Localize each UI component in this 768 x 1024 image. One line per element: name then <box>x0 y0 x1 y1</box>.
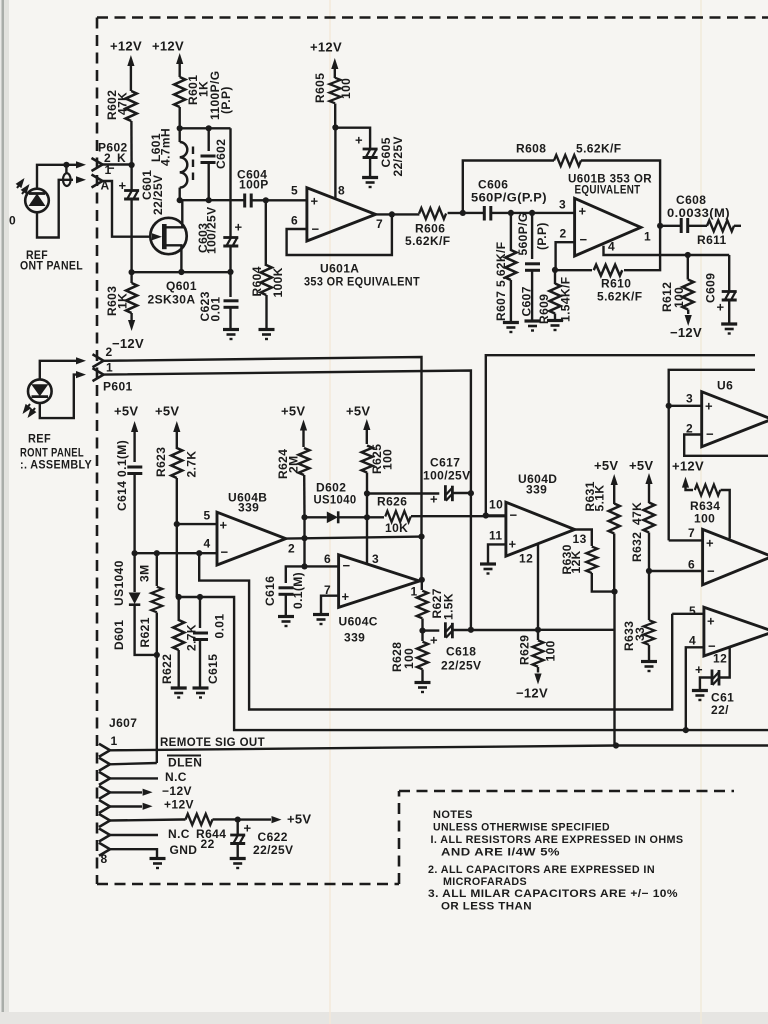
svg-text:+: + <box>509 537 517 552</box>
resistor R630 12K <box>586 547 597 573</box>
svg-text:100P: 100P <box>239 178 269 192</box>
svg-text:I. ALL RESISTORS ARE EXPRES: I. ALL RESISTORS ARE EXPRESSED IN OHMS <box>431 834 684 846</box>
output wire to C608 <box>660 225 680 227</box>
svg-text:4.7mH: 4.7mH <box>159 128 173 166</box>
ground under R633 <box>641 662 657 672</box>
node D602 anode <box>301 514 307 520</box>
vertical net down from pin3 node <box>668 406 670 541</box>
resistor R605 <box>330 78 341 104</box>
svg-text:5.62K/F: 5.62K/F <box>597 290 643 304</box>
output wire U604C <box>420 579 422 582</box>
node SIG OUT / R630 tap <box>613 742 619 748</box>
resistor R624 2M <box>299 448 310 475</box>
capacitor C608 <box>681 218 688 233</box>
capacitor C617 (polarized horizontal) <box>445 485 452 501</box>
node feedback on output <box>389 211 395 217</box>
svg-text:REMOTE SIG OUT: REMOTE SIG OUT <box>160 735 265 749</box>
svg-text:100: 100 <box>402 648 416 669</box>
svg-text:12: 12 <box>519 552 533 566</box>
svg-text:C607: C607 <box>520 286 534 316</box>
svg-text:353 OR EQUIVALENT: 353 OR EQUIVALENT <box>304 275 420 289</box>
svg-text:6: 6 <box>324 552 331 566</box>
node R621 on pin4 wire <box>154 550 160 556</box>
svg-text:+5V: +5V <box>346 404 370 419</box>
svg-text:5: 5 <box>689 604 696 618</box>
wire photodiode bottom loop to pin 1 <box>37 180 73 238</box>
resistor R623 <box>171 448 182 478</box>
svg-text:R626: R626 <box>377 495 407 509</box>
svg-text:2. ALL CAPACITORS ARE EXPRE: 2. ALL CAPACITORS ARE EXPRESSED IN <box>428 864 655 876</box>
pin 5 wire <box>266 199 307 201</box>
svg-text:4: 4 <box>204 537 211 551</box>
svg-text:2.7K: 2.7K <box>185 451 199 478</box>
node R629 top <box>535 627 541 633</box>
pin 4 wire <box>604 246 730 255</box>
wire P601 pin1 long run <box>104 371 471 494</box>
wire GND pin8 <box>110 849 157 857</box>
svg-text:33: 33 <box>633 627 647 641</box>
pin 2 feedback wire U6A <box>684 435 768 456</box>
capacitor C603 (polarized) <box>229 232 231 238</box>
svg-text:C615: C615 <box>206 654 220 684</box>
node R612 tap <box>685 252 691 258</box>
diode D602 US1040 <box>327 512 338 524</box>
node pin2/R609/R610 <box>552 267 558 273</box>
wire to R630 node corner <box>538 629 615 631</box>
output wire pin 7 <box>376 213 420 215</box>
wire net line4 upper right <box>669 370 755 406</box>
Q601 drain lead <box>166 200 182 227</box>
wire C618 row <box>423 629 440 631</box>
svg-text:R623: R623 <box>154 447 168 477</box>
svg-text:2: 2 <box>560 227 567 241</box>
node R623 pin5 <box>174 521 180 527</box>
svg-text:560P/G(P.P): 560P/G(P.P) <box>471 191 547 205</box>
photodiode P601 assembly circle <box>28 379 52 403</box>
netB wire to C615 and right <box>179 597 768 730</box>
wire C617 row <box>367 492 439 494</box>
svg-text:C622: C622 <box>258 830 288 844</box>
svg-text:US1040: US1040 <box>112 560 126 606</box>
Q601 source lead <box>166 245 181 272</box>
resistor R626 10K <box>385 511 411 522</box>
node C614 on pin4 wire <box>132 550 138 556</box>
svg-text:47K: 47K <box>630 502 644 525</box>
resistor R644 22 <box>186 814 213 825</box>
svg-text:C602: C602 <box>214 139 228 169</box>
svg-text:12: 12 <box>713 652 727 666</box>
ground under R628 <box>415 683 431 693</box>
svg-text:+: + <box>220 518 228 533</box>
svg-text:+5V: +5V <box>629 458 653 473</box>
svg-text:100/25V: 100/25V <box>205 206 219 254</box>
capacitor C606 <box>484 206 491 221</box>
R625 vertical to D602 row and pin 3 stub <box>366 494 368 565</box>
svg-text:US1040: US1040 <box>314 493 357 507</box>
node R632/R633 pin6 <box>646 568 652 574</box>
svg-text:22/: 22/ <box>711 703 729 717</box>
wire arrow into pin 2 <box>66 164 76 166</box>
svg-text:100: 100 <box>672 287 686 308</box>
svg-text:+12V: +12V <box>152 39 184 54</box>
svg-text:R608: R608 <box>516 142 546 156</box>
svg-text:22/25V: 22/25V <box>441 659 481 673</box>
svg-text:R605: R605 <box>313 73 327 103</box>
svg-text:339: 339 <box>238 501 259 515</box>
resistor R625 100 <box>362 446 373 473</box>
drain row wire to C604 <box>180 199 244 201</box>
+12V arrow R601 <box>176 53 183 64</box>
cable loop oval <box>63 173 71 186</box>
+5V arrow C614 <box>131 421 138 432</box>
pin 6 wire <box>305 565 339 567</box>
pin 6 wire <box>649 570 703 572</box>
+5V arrow R623 <box>173 421 180 432</box>
resistor R610 <box>594 265 623 276</box>
svg-text:2SK30A: 2SK30A <box>148 293 196 307</box>
node A cable junction <box>63 162 69 168</box>
op-amp U6xxC partial triangle <box>704 607 768 656</box>
node R605/C605 <box>332 124 338 130</box>
svg-text:+: + <box>706 536 714 551</box>
photodiode D600 light arrows <box>16 176 33 194</box>
svg-text:−12V: −12V <box>670 325 702 340</box>
svg-text:6: 6 <box>688 558 695 572</box>
node C607 tap <box>529 210 535 216</box>
svg-text:0.01: 0.01 <box>209 297 223 322</box>
resistor R604 <box>265 200 267 266</box>
output wire to R630 <box>575 530 592 547</box>
ground under R609 <box>547 321 563 331</box>
wire net line3 to pin10 <box>486 355 755 515</box>
resistor R608 <box>554 155 581 166</box>
svg-text:R610: R610 <box>601 277 631 291</box>
svg-text:MICROFARADS: MICROFARADS <box>443 876 527 888</box>
pin 5 wire <box>672 613 704 615</box>
svg-text:+5V: +5V <box>155 404 179 419</box>
svg-text:13: 13 <box>573 532 587 546</box>
svg-text:C614 0.1(M): C614 0.1(M) <box>115 440 129 511</box>
svg-text:0.0033(M): 0.0033(M) <box>667 206 730 220</box>
svg-text:+5V: +5V <box>281 404 305 419</box>
svg-text:−: − <box>706 427 714 442</box>
svg-text:5.62K/F: 5.62K/F <box>576 142 622 156</box>
node C615 top <box>197 594 203 600</box>
svg-text:−: − <box>707 564 715 579</box>
ground under R622 <box>171 688 187 698</box>
svg-text:D601: D601 <box>112 620 126 650</box>
wire right branch of tank down to C603 <box>229 128 231 232</box>
capacitor C607 <box>531 213 533 259</box>
svg-text:N.C: N.C <box>165 770 187 784</box>
svg-text:0.01: 0.01 <box>213 614 227 639</box>
wire pin 6 to R644 <box>110 820 186 821</box>
resistor R628 100 <box>421 631 423 641</box>
svg-text:+: + <box>707 614 715 629</box>
node pin4 on netB <box>683 727 689 733</box>
resistor R633 33 <box>648 571 650 620</box>
resistor R601 <box>174 77 185 107</box>
dashed main border left <box>96 18 99 885</box>
pin 12 wire down <box>537 545 539 630</box>
svg-text:+: + <box>430 633 438 648</box>
svg-text:−12V: −12V <box>112 336 144 351</box>
capacitor C605 (polarized) <box>363 149 378 158</box>
wire photodiode top to P602 pin 2 <box>37 165 66 189</box>
R623 vertical continues to lower node <box>176 524 178 597</box>
svg-text:5: 5 <box>291 184 298 198</box>
capacitor C614 <box>127 467 142 474</box>
wire -12V pin4 with arrow <box>110 791 142 793</box>
svg-text:5.1K: 5.1K <box>593 485 607 512</box>
pin 7 wire to ground <box>321 596 339 614</box>
resistor R632 47K <box>644 503 655 533</box>
node R606/R608/C606 <box>460 210 466 216</box>
node pin10 line3 <box>483 512 489 518</box>
op-amp U601B triangle <box>575 198 641 256</box>
pin 3 wire <box>669 405 702 407</box>
svg-text:+: + <box>430 492 438 507</box>
svg-text:3: 3 <box>372 552 379 566</box>
node C616/pin6 <box>301 563 307 569</box>
wire P601 pin2 long run <box>104 357 422 537</box>
capacitor C601 (polarized) <box>130 165 132 190</box>
wire to +5V arrow <box>238 818 271 820</box>
-12V arrow R612 <box>685 315 692 326</box>
svg-text:DLEN: DLEN <box>168 756 202 770</box>
ground under C615 <box>193 688 209 698</box>
+12V arrow R634 <box>682 477 689 488</box>
node C604 out <box>263 197 269 203</box>
ground pin 7 <box>313 615 329 625</box>
node pin 3 <box>666 403 672 409</box>
op-amp U6xxA partial triangle <box>702 392 768 447</box>
svg-text:339: 339 <box>344 631 365 645</box>
+5V arrow R625 <box>363 419 370 430</box>
svg-text:100/25V: 100/25V <box>423 469 471 483</box>
svg-text:+: + <box>235 220 243 235</box>
svg-text:R622: R622 <box>160 654 174 684</box>
svg-text:560P/G: 560P/G <box>516 212 530 255</box>
resistor R607 <box>510 213 512 251</box>
output wire U604B <box>286 537 422 539</box>
svg-text:22: 22 <box>201 837 215 851</box>
svg-text:100: 100 <box>544 640 558 661</box>
svg-text:+: + <box>342 589 350 604</box>
photodiode D600 circle <box>25 189 49 213</box>
svg-text:100: 100 <box>381 449 395 470</box>
pin 4 wire down to netB <box>686 647 704 730</box>
wire P602 pin2 to node K <box>103 163 132 165</box>
svg-text:U604C: U604C <box>339 615 378 629</box>
wire D602 row <box>305 516 327 518</box>
capacitor C623 <box>229 272 231 297</box>
node R627/R628/C618 <box>419 628 425 634</box>
wire node down to SIG OUT <box>613 592 615 746</box>
svg-text:C616: C616 <box>263 576 277 606</box>
svg-text:7: 7 <box>376 217 383 231</box>
svg-text:ONT PANEL: ONT PANEL <box>20 259 83 273</box>
connector J607 pin 6 chevron <box>99 814 110 827</box>
svg-text:C617: C617 <box>430 456 460 470</box>
svg-text:R632: R632 <box>630 532 644 562</box>
capacitor C618 (polarized horizontal) <box>445 622 452 638</box>
svg-text:1: 1 <box>411 585 418 599</box>
capacitor C622 (polarized) <box>236 820 238 835</box>
connector J607 pin 7 chevron <box>99 829 110 842</box>
connector P602 pin 2 chevron <box>92 158 103 171</box>
svg-text:K: K <box>117 151 126 165</box>
svg-text:8: 8 <box>101 852 108 866</box>
capacitor C615 <box>199 597 201 628</box>
svg-text:+: + <box>579 204 587 219</box>
node K junction <box>129 162 135 168</box>
svg-text:3. ALL MILAR CAPACITORS ARE: 3. ALL MILAR CAPACITORS ARE +/− 10% <box>428 888 678 900</box>
pin 4 wire <box>135 552 217 554</box>
+12V arrow R605 <box>331 58 338 69</box>
-12V arrow R603 <box>128 320 135 331</box>
svg-text:R609: R609 <box>537 294 551 324</box>
connector P601 pin 1 chevron <box>93 368 104 381</box>
node D601/R621 junction <box>154 652 160 658</box>
feedback wire pin6 to output <box>287 214 392 255</box>
wire N.C pin3 <box>110 777 158 779</box>
svg-text:UNLESS OTHERWISE SPECIFIED: UNLESS OTHERWISE SPECIFIED <box>433 822 610 834</box>
svg-text:NOTES: NOTES <box>433 809 473 821</box>
ground under C616 <box>278 617 294 627</box>
svg-text:−: − <box>312 222 320 237</box>
resistor R611 <box>707 220 734 231</box>
diode D601 US1040 <box>133 553 135 592</box>
svg-text:AND ARE I/4W 5%: AND ARE I/4W 5% <box>441 847 560 859</box>
photodiode light arrows <box>20 404 37 420</box>
svg-text:100: 100 <box>339 78 353 99</box>
capacitor C602 <box>207 128 209 151</box>
node R622 top <box>176 594 182 600</box>
op-amp U604D triangle <box>506 502 575 556</box>
svg-text:+12V: +12V <box>110 39 142 54</box>
wire pin1 A to gate <box>103 181 151 237</box>
ground pin 8 <box>150 859 166 869</box>
photodiode D600 cathode bar <box>29 192 45 195</box>
wire photodiode top to P601 pin 2 <box>40 361 76 380</box>
svg-text:0: 0 <box>9 214 16 228</box>
Q601 channel bar <box>162 224 167 249</box>
svg-text:+12V: +12V <box>310 40 342 55</box>
resistor R629 100 <box>537 630 539 640</box>
capacitor C604 <box>245 194 252 208</box>
netA route from pin4 wire <box>196 550 202 556</box>
dashed notes-box left border <box>398 791 401 884</box>
svg-text:U601A: U601A <box>320 262 359 276</box>
svg-text:339: 339 <box>526 483 547 497</box>
svg-text:REF: REF <box>28 432 51 446</box>
wire to C605 <box>335 128 370 150</box>
svg-text:4: 4 <box>608 240 615 254</box>
node R607 tap <box>508 210 514 216</box>
connector J607 pin 2 chevron <box>99 758 110 771</box>
+12V arrow R602 <box>127 55 134 66</box>
svg-text:100K: 100K <box>271 267 285 297</box>
resistor R612 <box>687 255 689 280</box>
wire +12V pin5 with arrow <box>110 805 142 807</box>
connector P602 pin 1 chevron <box>92 175 103 188</box>
svg-text:4: 4 <box>689 634 696 648</box>
dashed main border top <box>97 16 768 19</box>
svg-text:+5V: +5V <box>287 812 311 827</box>
op-amp U601A triangle <box>307 188 376 241</box>
resistor R606 <box>419 208 446 219</box>
-12V arrow R629 <box>534 674 541 685</box>
svg-text:10K: 10K <box>385 521 408 535</box>
resistor R622 <box>177 597 179 621</box>
pin 7 wire <box>669 539 703 541</box>
svg-text:3M: 3M <box>138 565 152 582</box>
R610 wire <box>555 226 660 270</box>
svg-text::. ASSEMBLY: :. ASSEMBLY <box>20 458 92 472</box>
svg-text:3: 3 <box>686 392 693 406</box>
node U604C output <box>419 577 425 583</box>
ground under C623 <box>223 330 239 340</box>
svg-text:C609: C609 <box>704 273 718 303</box>
resistor R602 <box>126 91 137 121</box>
svg-text:2: 2 <box>288 542 295 556</box>
connector J607 pin 5 chevron <box>99 800 110 813</box>
svg-text:−: − <box>343 558 351 573</box>
transistor Q601 JFET circle <box>150 218 186 254</box>
svg-text:2M: 2M <box>287 456 301 473</box>
svg-text:C606: C606 <box>478 178 508 192</box>
dashed notes-box top border <box>399 790 734 793</box>
svg-text:(P.P): (P.P) <box>535 222 549 250</box>
svg-text:1.5K: 1.5K <box>442 593 456 620</box>
svg-text:+12V: +12V <box>672 459 704 474</box>
node R625/C617 <box>364 490 370 496</box>
ground under R604 <box>259 330 275 340</box>
photodiode D600 diode triangle <box>29 194 46 207</box>
svg-text:−12V: −12V <box>162 784 192 798</box>
node C622 tap <box>235 817 241 823</box>
ground under C609 <box>721 324 737 334</box>
svg-text:N.C: N.C <box>168 827 190 841</box>
wire pin1 net continues to C618 <box>470 493 472 629</box>
resistor R621 3M <box>156 553 158 586</box>
svg-text:8: 8 <box>338 184 345 198</box>
ground under R607 <box>503 323 519 333</box>
svg-text:U6: U6 <box>717 379 733 393</box>
resistor R634 100 <box>695 485 721 496</box>
svg-text:+: + <box>311 194 319 209</box>
connector P601 pin 2 chevron <box>93 354 104 367</box>
svg-text:7: 7 <box>688 526 695 540</box>
feedback wire R608 top <box>463 161 660 226</box>
ground pin 11 <box>480 564 496 574</box>
pin 2 wire down <box>556 242 575 270</box>
svg-text:5: 5 <box>204 509 211 523</box>
+5V arrow R632 <box>645 473 652 484</box>
svg-text:R604: R604 <box>250 266 264 296</box>
svg-text:12K: 12K <box>569 550 583 573</box>
svg-text:EQUIVALENT: EQUIVALENT <box>575 183 641 197</box>
paper edge shading <box>0 0 2 1024</box>
main wire into C606 <box>463 212 484 214</box>
svg-text:1K: 1K <box>116 293 130 309</box>
svg-text:2.7K: 2.7K <box>185 624 199 651</box>
wire N.C pin7 <box>110 834 158 836</box>
ground under C619 <box>692 691 708 701</box>
wire tank top rail <box>180 127 231 129</box>
pin 10 wire <box>486 514 506 516</box>
